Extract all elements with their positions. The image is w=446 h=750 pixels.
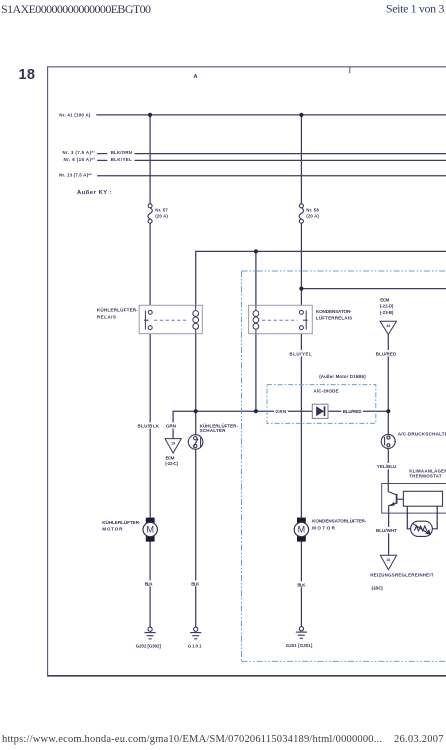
svg-text:A: A: [194, 74, 198, 80]
label BLK motor1: [144, 580, 155, 586]
svg-text:(-22-C): (-22-C): [165, 461, 178, 466]
svg-text:16: 16: [386, 558, 390, 562]
svg-text:S1AXE00000000000000EBGT00: S1AXE00000000000000EBGT00: [1, 2, 151, 16]
label BLU/BLK: [136, 422, 160, 428]
wire transistor emitter to heater control BLU/WHT: [388, 506, 390, 556]
svg-text:A/C-DRUCKSCHALTE: A/C-DRUCKSCHALTE: [398, 432, 446, 437]
ground G202: [145, 627, 156, 639]
svg-text:BLU/RED: BLU/RED: [376, 351, 397, 356]
relay K1 switch contact: [144, 310, 152, 329]
label YEL/BLU: [376, 463, 398, 469]
svg-text:A/C-DIODE: A/C-DIODE: [313, 388, 338, 393]
svg-text:18: 18: [19, 67, 36, 83]
relay K2 link dashed: [262, 319, 298, 321]
fan switch S1 Kuehlerluefter-Schalter: [188, 435, 203, 450]
svg-text:BLK: BLK: [297, 582, 306, 587]
grid tick: [349, 67, 351, 73]
frame bottom border: [47, 675, 446, 677]
frame border: [48, 67, 446, 676]
label BLK motor2: [296, 581, 307, 587]
svg-text:BLU/RED: BLU/RED: [343, 409, 363, 414]
wire bus Nr.41 100A: [96, 114, 446, 116]
svg-text:Nr. 13 (7.5 A)*²: Nr. 13 (7.5 A)*²: [59, 173, 92, 178]
junction node ECM condenser: [299, 287, 303, 291]
label BLU/YEL: [288, 350, 312, 356]
wire BLK/ORN fuse lead: [97, 153, 107, 155]
thermostat unit box: [382, 484, 446, 514]
svg-text:KÜHLERLÜFTER-: KÜHLERLÜFTER-: [97, 307, 138, 313]
label GRN in diode box: [274, 408, 288, 414]
A/C diode dash-dot box: [267, 385, 376, 424]
svg-text:SCHALTER: SCHALTER: [200, 428, 226, 433]
svg-text:(-22-D): (-22-D): [380, 304, 394, 309]
svg-text:https://www.ecom.honda-eu.com/: https://www.ecom.honda-eu.com/gma10/EMA/…: [2, 734, 382, 745]
thermostat inner box: [403, 491, 442, 506]
svg-text:BLU/YEL: BLU/YEL: [289, 351, 311, 356]
wire GRN net: [173, 411, 388, 439]
svg-text:Seite 1 von 3: Seite 1 von 3: [386, 1, 445, 15]
svg-text:(Außer Motor D16B6): (Außer Motor D16B6): [319, 374, 366, 379]
relay K2 coil: [253, 305, 259, 333]
junction node diode output: [386, 409, 390, 413]
svg-text:(-23-B): (-23-B): [380, 310, 394, 315]
relay K1 link dashed: [154, 319, 188, 321]
wire relay1 coil to node GRN: [195, 334, 197, 435]
svg-text:KÜHLERLÜFTER-: KÜHLERLÜFTER-: [102, 519, 141, 525]
fuse F58: [299, 204, 303, 223]
svg-text:G101: G101: [188, 643, 202, 648]
svg-text:26.03.2007: 26.03.2007: [394, 734, 444, 745]
svg-text:BLK: BLK: [145, 581, 154, 586]
junction node GRN at relay1 coil: [194, 409, 198, 413]
relay K1 coil: [193, 305, 199, 333]
wire fuse57 feed: [149, 115, 151, 204]
motor M1 Kuehlerluefter-Motor: [143, 518, 157, 542]
wire inner box to sensor left: [407, 506, 410, 529]
wire fuse58 feed: [300, 115, 302, 204]
svg-text:(20 A): (20 A): [155, 214, 168, 219]
svg-text:KONDENSATORLÜFTER-: KONDENSATORLÜFTER-: [312, 518, 367, 524]
heater control connector triangle: [380, 555, 396, 570]
svg-text:M: M: [146, 525, 154, 535]
svg-text:Nr. 3 (7.5 A)*¹: Nr. 3 (7.5 A)*¹: [62, 150, 95, 155]
label BLU/RED upper: [375, 350, 397, 356]
diode D1: [312, 404, 328, 418]
junction node relay2 coil: [254, 249, 258, 253]
svg-text:Außer KY :: Außer KY :: [77, 190, 112, 196]
svg-text:G202 [G302]: G202 [G302]: [136, 643, 162, 648]
relay K1 Kuehlerluefter-Relais box: [139, 305, 202, 333]
svg-text:(20 A): (20 A): [306, 214, 319, 219]
wire fan switch to ground: [195, 449, 197, 627]
svg-text:BLK: BLK: [191, 581, 200, 586]
svg-text:Nr. 41 (100 A): Nr. 41 (100 A): [59, 112, 91, 117]
A/C pressure switch S2: [381, 434, 396, 448]
svg-text:M: M: [298, 525, 306, 535]
wire BLK/YEL bus: [135, 159, 446, 161]
svg-text:G201 [G301]: G201 [G301]: [286, 643, 313, 648]
svg-text:BLK/ORN: BLK/ORN: [111, 150, 132, 155]
svg-text:KONDENSATOR-: KONDENSATOR-: [316, 309, 352, 314]
wire BLK/YEL fuse lead: [97, 159, 107, 161]
big dash-dot region boundary: [242, 271, 446, 661]
svg-text:MOTOR: MOTOR: [312, 526, 336, 531]
svg-text:44: 44: [386, 324, 390, 328]
svg-text:BLU/BLK: BLU/BLK: [138, 424, 160, 429]
label BLU/RED in diode box: [341, 408, 363, 414]
svg-text:LÜFTERRELAIS: LÜFTERRELAIS: [316, 314, 352, 320]
svg-text:MOTOR: MOTOR: [102, 526, 123, 531]
svg-text:GRN: GRN: [275, 409, 286, 414]
wire relay coils feed from ECM: [196, 251, 446, 305]
wire ECM condenser line: [301, 288, 446, 290]
wire fuse57 to relay1: [149, 223, 151, 305]
wire ECM fan control BLU/RED: [387, 335, 389, 435]
label GRN stub: [165, 422, 177, 428]
svg-text:RELAIS: RELAIS: [97, 314, 116, 319]
transistor Q1: [389, 492, 404, 506]
junction node on bus at fuse57: [148, 113, 152, 117]
label BLU/WHT: [375, 527, 398, 533]
svg-text:BLU/WHT: BLU/WHT: [376, 528, 397, 533]
svg-text:HEIZUNGSREGLEREINHEIT: HEIZUNGSREGLEREINHEIT: [370, 572, 434, 577]
fuse F57: [148, 204, 152, 223]
wire inner box to sensor right: [432, 506, 437, 529]
wire BLK/ORN bus: [135, 153, 446, 155]
ground G101: [190, 627, 201, 639]
wire relay1 output BLU/BLK: [149, 334, 151, 518]
svg-text:YEL/BLU: YEL/BLU: [377, 464, 397, 469]
wire motor2 to ground: [300, 541, 302, 626]
wire ac switch to thermostat YEL/BLU: [387, 448, 389, 492]
relay K2 Kondensatorluefterrelais box: [249, 305, 313, 333]
svg-text:19: 19: [171, 442, 175, 446]
label BLK fan switch: [190, 580, 201, 586]
motor M2 Kondensatorluefter-Motor: [294, 518, 308, 542]
svg-text:(-18-C): (-18-C): [372, 586, 384, 591]
relay K2 switch contact: [299, 310, 307, 329]
junction node GRN at relay2 coil: [254, 409, 258, 413]
svg-text:Nr. 6 (15 A)*³: Nr. 6 (15 A)*³: [64, 157, 96, 162]
wire fuse58 to relay2: [300, 223, 302, 305]
ECM connector triangle 22C: [165, 439, 181, 454]
wire motor1 to ground: [149, 541, 151, 627]
thermistor sensor RT1: [411, 521, 433, 536]
svg-text:Nr. 58: Nr. 58: [306, 208, 319, 213]
svg-text:THERMOSTAT: THERMOSTAT: [409, 473, 442, 478]
svg-text:BLK/YEL: BLK/YEL: [111, 157, 133, 162]
junction node on bus at fuse58: [299, 113, 303, 117]
ground G201: [296, 627, 307, 639]
svg-text:Nr. 57: Nr. 57: [155, 208, 168, 213]
ECM connector triangle U1: [380, 321, 396, 334]
wire relay2 coil drop: [255, 251, 257, 305]
wire Nr.13 bus: [97, 175, 446, 177]
svg-text:ECM: ECM: [380, 297, 389, 302]
wire relay2 coil to node GRN: [255, 334, 257, 412]
svg-text:GRN: GRN: [166, 424, 176, 429]
wire relay2 output BLU/YEL: [300, 334, 302, 518]
